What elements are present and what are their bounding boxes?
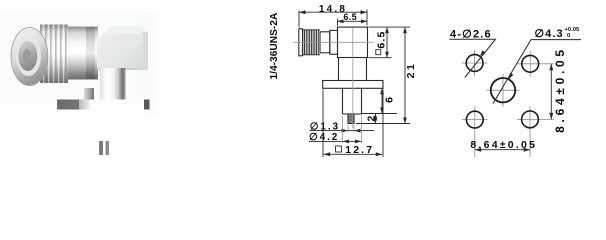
hole bottom-left bbox=[466, 111, 483, 128]
svg-text:8.64±0.05: 8.64±0.05 bbox=[470, 139, 537, 151]
svg-text:4-∅2.6: 4-∅2.6 bbox=[450, 28, 492, 40]
crosshair center hole bbox=[487, 74, 520, 107]
dim square 12.7 bbox=[323, 90, 383, 158]
svg-text:6.5: 6.5 bbox=[375, 30, 387, 48]
svg-text:0: 0 bbox=[567, 33, 570, 39]
photo: front cone bore bbox=[18, 41, 37, 71]
svg-text:2: 2 bbox=[365, 116, 377, 122]
photo: flange dark left end bbox=[57, 100, 79, 110]
dim 8.64 right bbox=[550, 64, 552, 120]
center hole bbox=[491, 78, 515, 102]
hole top-left bbox=[466, 55, 483, 72]
shank between threads and ring bbox=[320, 32, 330, 53]
dim dia 1.3 bbox=[310, 130, 375, 132]
crosshair bottom-left hole bbox=[462, 107, 488, 157]
hole top-right bbox=[522, 55, 539, 72]
svg-text:21: 21 bbox=[405, 62, 417, 79]
svg-text:8.64±0.05: 8.64±0.05 bbox=[553, 46, 567, 133]
ring before body bbox=[330, 30, 338, 54]
dim square 6.5 right side bbox=[369, 27, 411, 58]
photo: flange light segment bbox=[79, 100, 90, 110]
solder pin bbox=[348, 114, 354, 124]
photo background bbox=[0, 12, 162, 118]
dim 6.5 top bbox=[338, 19, 368, 27]
hole bottom-right bbox=[522, 111, 539, 128]
photo: flange right end bbox=[144, 100, 150, 110]
dim dia 4.2 bbox=[309, 140, 362, 142]
crosshair top-left hole bbox=[462, 50, 488, 76]
dim 14.8 bbox=[299, 10, 367, 28]
dim 21 bbox=[356, 27, 410, 123]
photo: nut front face bbox=[11, 28, 48, 86]
nut face rectangle bbox=[299, 29, 303, 56]
dim 2 right bbox=[375, 114, 377, 124]
svg-text:6.5: 6.5 bbox=[343, 12, 357, 22]
svg-text:∅4.3: ∅4.3 bbox=[535, 28, 564, 40]
vertical centerline bbox=[352, 28, 354, 129]
photo: slotted pin tip bbox=[99, 141, 103, 155]
svg-text:12.7: 12.7 bbox=[345, 144, 374, 156]
flange bbox=[323, 81, 383, 89]
svg-text:∅1.3: ∅1.3 bbox=[310, 121, 340, 132]
svg-text:∅4.2: ∅4.2 bbox=[309, 132, 339, 143]
dim 6 right bbox=[362, 88, 397, 113]
photo: right-angle body block bbox=[97, 26, 148, 71]
body block bbox=[338, 27, 368, 57]
svg-text:6: 6 bbox=[383, 97, 395, 103]
cylinder below flange bbox=[343, 88, 362, 114]
dim 8.64 bottom bbox=[475, 149, 531, 151]
crosshair bottom-right hole bbox=[517, 106, 554, 157]
svg-text:1/4-36UNS-2A: 1/4-36UNS-2A bbox=[269, 12, 280, 79]
photo: barrel behind nut bbox=[68, 27, 98, 80]
photo: vertical tube below block bbox=[100, 68, 126, 100]
crosshair top-right hole bbox=[517, 51, 554, 77]
pin hatching bbox=[348, 117, 354, 120]
horizontal centerline bbox=[294, 41, 374, 43]
photo: boss near flange bbox=[84, 88, 94, 100]
neck tube below body bbox=[339, 58, 367, 81]
photo: knurled coupling nut bbox=[40, 25, 68, 84]
thread zigzag bbox=[303, 30, 318, 54]
